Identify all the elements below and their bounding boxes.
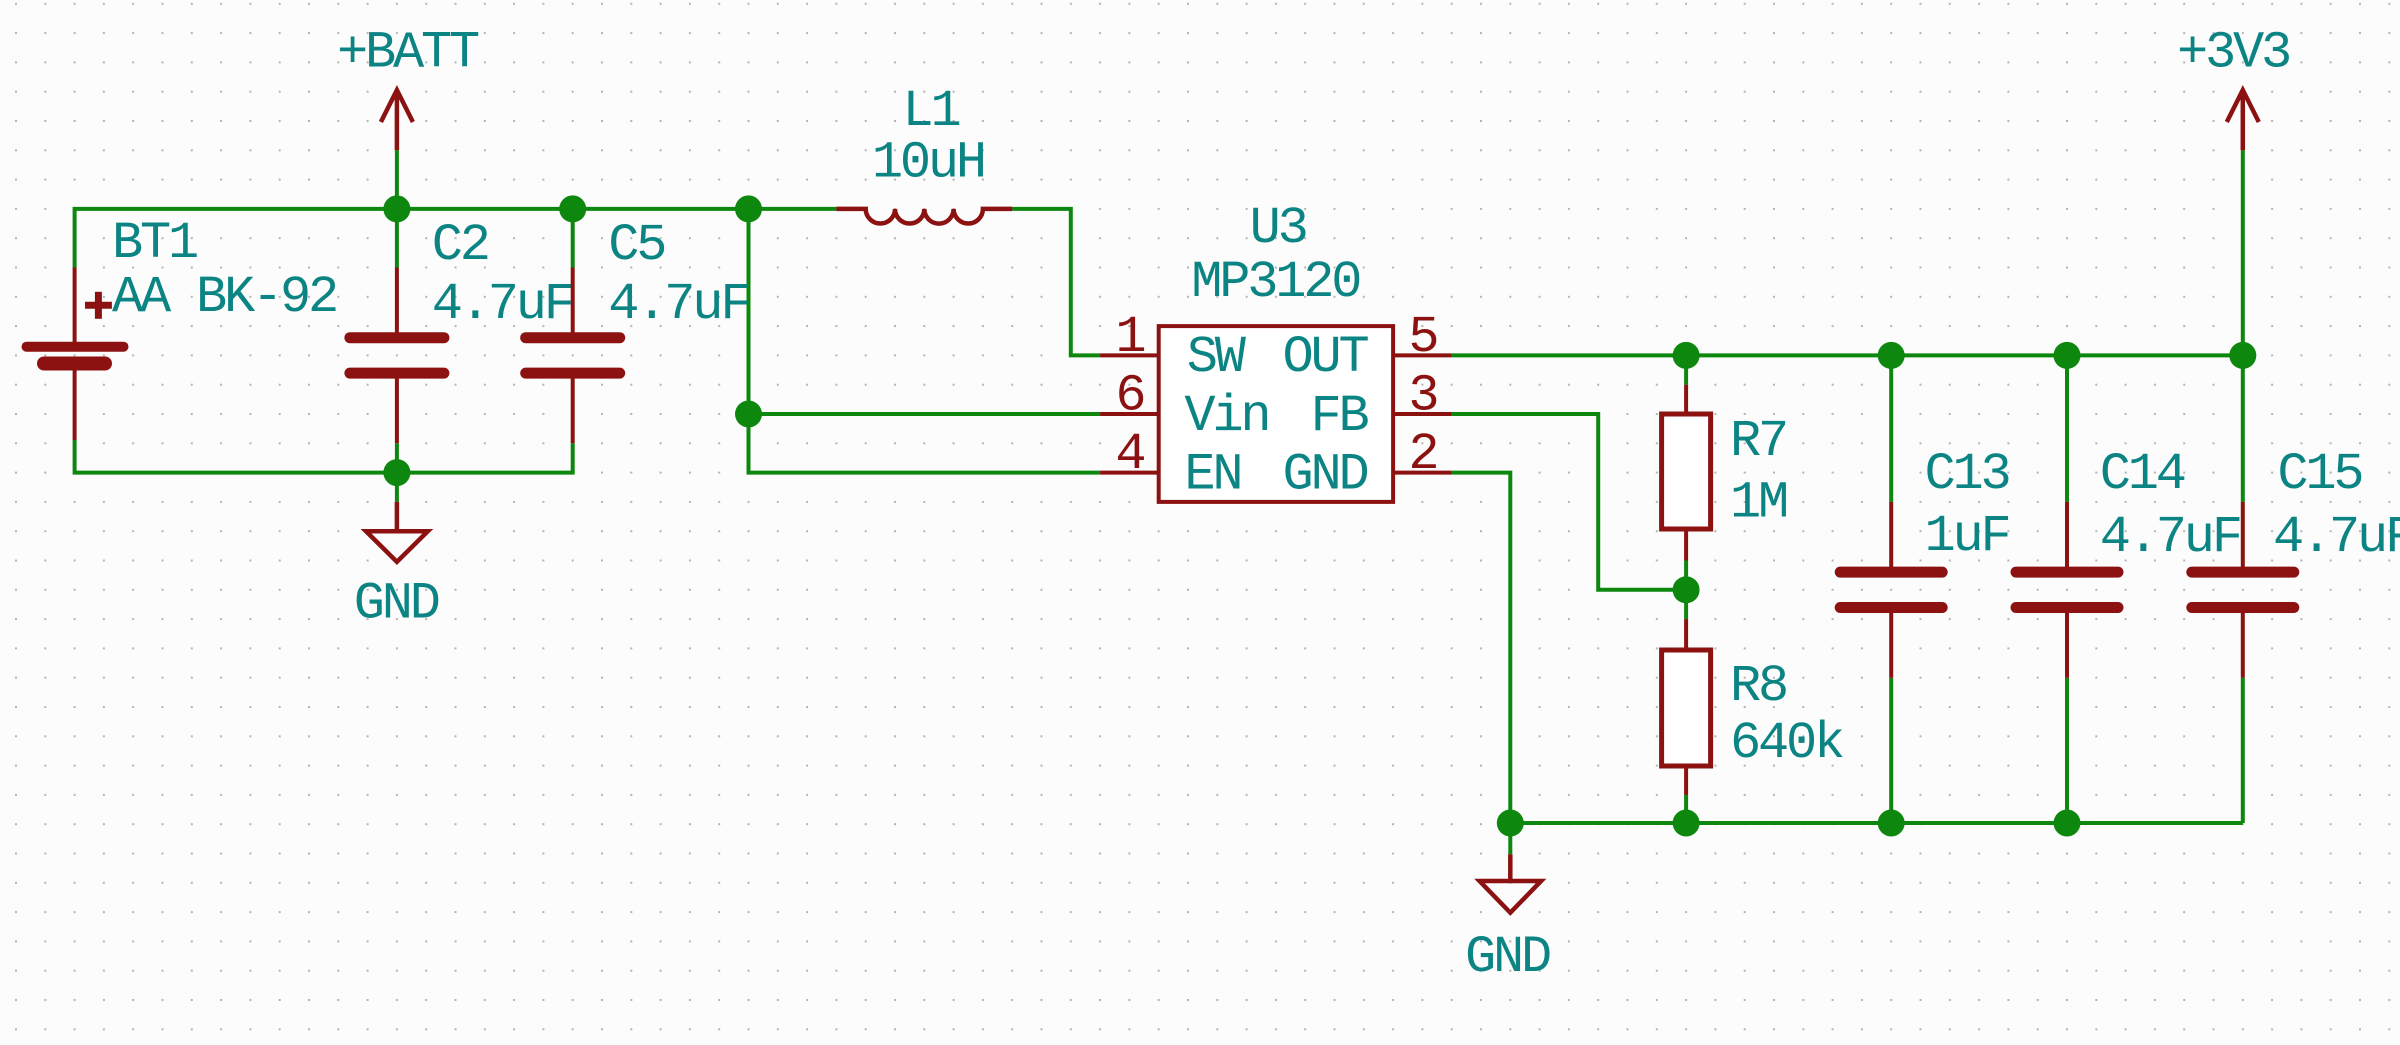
- ground symbol left: [366, 502, 428, 562]
- wire GND stub left: [395, 473, 399, 502]
- svg-text:L1: L1: [903, 82, 960, 141]
- pin 6 Vin stub: [1100, 412, 1159, 416]
- pin 3 FB stub: [1393, 412, 1452, 416]
- svg-text:EN: EN: [1184, 445, 1240, 504]
- junction OUT rail / C14: [2054, 342, 2081, 369]
- wire GND stub right: [1508, 823, 1512, 854]
- svg-text:C13: C13: [1925, 445, 2009, 504]
- svg-text:1uF: 1uF: [1925, 507, 2009, 566]
- svg-text:SW: SW: [1187, 328, 1247, 387]
- pin 2 GND stub: [1393, 471, 1452, 475]
- junction OUT rail / C13: [1878, 342, 1905, 369]
- svg-text:GND: GND: [354, 575, 439, 634]
- battery BT1: [27, 268, 124, 441]
- resistor R7: [1662, 385, 1711, 561]
- svg-text:5: 5: [1408, 308, 1436, 367]
- svg-text:4.7uF: 4.7uF: [432, 275, 572, 334]
- wire C2 bottom: [395, 443, 399, 472]
- wire branch vertical to EN: [749, 209, 1101, 473]
- svg-text:BT1: BT1: [112, 214, 197, 273]
- svg-text:4.7uF: 4.7uF: [608, 275, 748, 334]
- wire C13 bottom: [1889, 678, 1893, 823]
- junction ground rail / C13 bottom: [1878, 810, 1905, 837]
- capacitor C15: [2192, 502, 2294, 678]
- capacitor C5: [526, 268, 620, 444]
- pin 5 OUT stub: [1393, 353, 1452, 357]
- wire Vin: [749, 412, 1101, 416]
- svg-text:10uH: 10uH: [872, 134, 984, 193]
- power symbol +3V3 arrow: [2227, 90, 2259, 150]
- junction at bottom rail / GND: [383, 459, 410, 486]
- svg-text:+3V3: +3V3: [2177, 24, 2289, 83]
- capacitor C2: [350, 268, 444, 444]
- svg-text:6: 6: [1115, 367, 1143, 426]
- wire R7 top: [1684, 355, 1688, 384]
- wire +3V3 vertical: [2241, 150, 2245, 355]
- wire C5 top: [571, 209, 575, 268]
- svg-text:C2: C2: [432, 216, 488, 275]
- svg-text:MP3120: MP3120: [1191, 253, 1359, 312]
- junction ground rail / R8 bottom: [1673, 810, 1700, 837]
- svg-text:R7: R7: [1730, 412, 1786, 471]
- svg-text:4.7uF: 4.7uF: [2100, 508, 2240, 567]
- svg-text:FB: FB: [1310, 387, 1368, 446]
- svg-text:3: 3: [1408, 367, 1436, 426]
- svg-text:GND: GND: [1282, 445, 1367, 504]
- resistor R8: [1662, 619, 1711, 795]
- junction at +BATT / C2 top: [383, 195, 410, 222]
- svg-text:4.7uF: 4.7uF: [2273, 508, 2400, 567]
- svg-text:OUT: OUT: [1282, 328, 1368, 387]
- wire C15 top: [2241, 355, 2245, 502]
- wire R8 top: [1684, 590, 1688, 619]
- svg-text:C5: C5: [608, 216, 664, 275]
- junction ground rail left / GND symbol: [1497, 810, 1524, 837]
- wire C13 top: [1889, 355, 1893, 502]
- junction OUT rail / R7: [1673, 342, 1700, 369]
- inductor L1: [836, 209, 1012, 224]
- pin 4 EN stub: [1100, 471, 1159, 475]
- svg-text:Vin: Vin: [1184, 387, 1268, 446]
- capacitor C14: [2016, 502, 2118, 678]
- wire R7 bottom to junction: [1684, 561, 1688, 590]
- svg-text:2: 2: [1408, 425, 1436, 484]
- wire top +BATT rail from battery to L1: [75, 209, 837, 268]
- wire C2 top: [395, 209, 399, 268]
- wire C14 bottom: [2065, 678, 2069, 823]
- wire GND pin 2 to ground rail: [1452, 473, 1511, 823]
- wire OUT rail: [1452, 353, 2243, 357]
- wire C15 bottom: [2241, 678, 2245, 823]
- junction at branch of top rail: [735, 195, 762, 222]
- svg-text:U3: U3: [1250, 199, 1306, 258]
- svg-text:R8: R8: [1730, 657, 1786, 716]
- wire bottom battery GND rail: [75, 440, 573, 473]
- wire R8 bottom: [1684, 795, 1688, 823]
- ground symbol right: [1480, 854, 1542, 912]
- svg-text:C14: C14: [2100, 445, 2185, 504]
- wire L1 right to SW pin: [1012, 209, 1100, 356]
- wire +BATT stub: [395, 150, 399, 209]
- junction FB / R7 / R8: [1673, 576, 1700, 603]
- power symbol +BATT arrow: [381, 90, 413, 150]
- junction at Vin branch: [735, 401, 762, 428]
- wire C14 top: [2065, 355, 2069, 502]
- svg-text:1M: 1M: [1730, 474, 1786, 533]
- op-amp U3 MP3120 body: [1159, 326, 1393, 502]
- svg-text:AA BK-92: AA BK-92: [112, 268, 336, 327]
- wire ground rail right: [1510, 821, 2243, 825]
- svg-text:4: 4: [1115, 425, 1144, 484]
- svg-text:+BATT: +BATT: [337, 24, 479, 83]
- junction at C5 top: [559, 195, 586, 222]
- svg-text:1: 1: [1115, 308, 1144, 367]
- svg-text:C15: C15: [2277, 445, 2361, 504]
- capacitor C13: [1840, 502, 1942, 678]
- svg-text:640k: 640k: [1730, 714, 1843, 773]
- svg-text:GND: GND: [1465, 928, 1550, 987]
- wire FB to divider: [1452, 414, 1686, 590]
- pin 1 SW stub: [1100, 353, 1159, 357]
- junction OUT rail / +3V3 / C15: [2229, 342, 2256, 369]
- junction ground rail / C14 bottom: [2054, 810, 2081, 837]
